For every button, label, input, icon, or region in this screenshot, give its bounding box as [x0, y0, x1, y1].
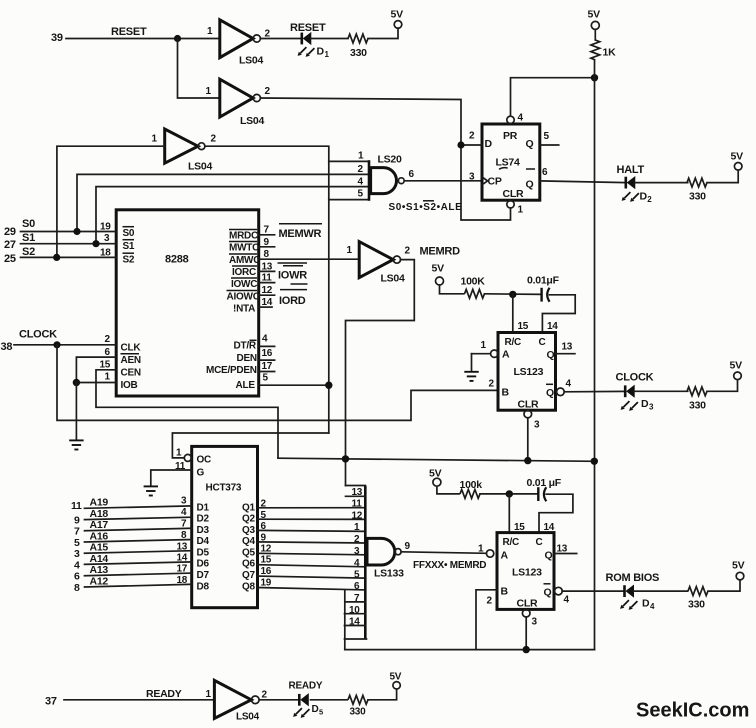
- pin name AIOWC inside: [227, 291, 260, 303]
- svg-text:S2: S2: [123, 255, 135, 266]
- LS74 inside labels: [482, 130, 535, 200]
- pin name S1bar inside: [123, 240, 135, 252]
- svg-text:6: 6: [354, 581, 360, 592]
- ladder cell 12 label: [352, 510, 363, 521]
- svg-text:14: 14: [349, 617, 360, 628]
- wire inverter1 out to LED D1: [261, 38, 302, 40]
- resistor 330 (D1): [348, 34, 368, 59]
- pin 13 Q stub: [556, 342, 575, 354]
- svg-text:2: 2: [211, 134, 217, 145]
- pin 2 D input wire and junction dot: [457, 131, 482, 149]
- svg-text:12: 12: [262, 285, 273, 296]
- svg-text:MRDC: MRDC: [229, 231, 258, 242]
- wire resistor to 5V (CLOCK): [707, 380, 738, 392]
- svg-text:READY: READY: [146, 688, 182, 700]
- latch U5 HCT373 box: [192, 446, 258, 607]
- svg-text:7: 7: [264, 225, 270, 236]
- pin 13 IORC stub: [259, 262, 275, 273]
- svg-text:C: C: [539, 337, 546, 348]
- svg-text:5V: 5V: [432, 263, 445, 275]
- svg-text:LS74: LS74: [496, 157, 521, 169]
- svg-text:MEMRD: MEMRD: [420, 246, 461, 258]
- gate LS133 13-input NAND body: [367, 538, 411, 579]
- svg-text:LS123: LS123: [512, 567, 542, 579]
- svg-text:A17: A17: [90, 519, 109, 531]
- wire CEN pin routing down and right: [96, 370, 278, 458]
- svg-text:17: 17: [262, 361, 273, 372]
- wire R/C junction down to pin 15: [512, 294, 514, 332]
- svg-text:RESET: RESET: [290, 22, 326, 34]
- svg-text:9: 9: [405, 541, 411, 552]
- pin 13 Q stub #2: [554, 544, 577, 555]
- power 5V terminal (100K #1): [432, 263, 445, 286]
- svg-text:1: 1: [206, 689, 212, 700]
- svg-text:5: 5: [358, 189, 364, 200]
- wire cap to C pin via right loop: [542, 295, 575, 333]
- svg-text:14: 14: [262, 297, 273, 308]
- diode D5 LED READY: [293, 694, 323, 718]
- svg-text:C: C: [536, 537, 543, 548]
- svg-text:Q6: Q6: [242, 559, 256, 570]
- svg-text:5: 5: [544, 131, 550, 142]
- svg-text:1: 1: [354, 522, 360, 533]
- net label ROM BIOS: [606, 572, 660, 584]
- net label CLOCK: [19, 329, 57, 341]
- svg-text:1: 1: [206, 86, 212, 97]
- op-amp inverter LS04 #3: [152, 129, 217, 173]
- diode D1 LED: [298, 33, 330, 59]
- svg-text:LS04: LS04: [240, 115, 265, 127]
- ground (8288 AEN/IOB): [69, 440, 83, 449]
- pin name S0bar inside: [123, 227, 135, 239]
- one-shot U6 LS123 box: [497, 533, 554, 610]
- svg-text:0.01 μF: 0.01 μF: [527, 477, 562, 489]
- junction dot PR/1K: [591, 74, 598, 81]
- svg-text:16: 16: [261, 566, 272, 577]
- wire resistor to 5V (ROM BIOS): [708, 580, 740, 591]
- svg-text:B: B: [501, 586, 509, 598]
- ladder left border and riser to rail: [344, 590, 346, 650]
- svg-text:CLK: CLK: [121, 343, 142, 354]
- svg-text:13: 13: [557, 544, 568, 555]
- svg-text:IOWR: IOWR: [278, 270, 307, 282]
- svg-text:11: 11: [71, 500, 82, 512]
- svg-text:A: A: [502, 349, 510, 361]
- svg-text:A13: A13: [90, 564, 109, 576]
- pin 3 CLR bubble #2 and wire down: [522, 609, 537, 649]
- ladder cell 7: [345, 593, 365, 604]
- wire 100K to junction and cap: [485, 293, 542, 296]
- ladder cell 3 label: [354, 546, 360, 557]
- svg-text:3: 3: [534, 420, 540, 431]
- svg-text:FFXXX• MEMRD: FFXXX• MEMRD: [413, 560, 486, 571]
- net label S0.S1.S2.ALE: [389, 201, 463, 213]
- svg-text:3: 3: [532, 617, 538, 628]
- pin 4 PR bubble and wire to 1K line: [507, 78, 595, 124]
- ladder cell 4 label: [354, 558, 360, 569]
- wire LS133 out to LS123#2 A: [401, 552, 486, 554]
- svg-text:14: 14: [547, 321, 558, 332]
- svg-text:2: 2: [354, 534, 360, 545]
- resistor 100k #2: [460, 479, 483, 498]
- net label MEMRD: [420, 246, 461, 258]
- pin 1 A input bubble and ground: [472, 340, 498, 371]
- diode D4 LED ROM BIOS: [620, 585, 655, 611]
- LS123 #2 inside labels: [501, 537, 553, 610]
- ladder top rung: [346, 485, 366, 487]
- svg-text:3: 3: [181, 496, 187, 507]
- svg-text:Q7: Q7: [242, 570, 256, 581]
- ladder cell 5 label: [354, 569, 360, 580]
- svg-text:A: A: [501, 550, 509, 562]
- svg-text:11: 11: [175, 461, 186, 472]
- svg-text:6: 6: [105, 347, 111, 358]
- wire OC riser to ALE vertical: [172, 433, 328, 458]
- svg-text:R/C: R/C: [505, 337, 522, 348]
- pin 15 label: [100, 360, 111, 371]
- svg-text:19: 19: [100, 222, 111, 233]
- svg-text:330: 330: [350, 707, 367, 718]
- pin 3 label: [104, 233, 110, 244]
- net label IOWR: [278, 263, 308, 282]
- svg-text:PR: PR: [503, 130, 518, 142]
- svg-text:RESET: RESET: [111, 26, 147, 38]
- svg-text:D: D: [640, 191, 648, 203]
- junction dot CLR #1: [524, 457, 531, 464]
- pin name CEN inside: [121, 368, 141, 379]
- svg-text:CLR: CLR: [518, 399, 539, 411]
- node 27 input: [4, 239, 16, 251]
- capacitor C1 0.01uF: [527, 275, 560, 302]
- svg-text:18: 18: [100, 248, 111, 259]
- ground (HCT373 G): [144, 486, 158, 495]
- pin 15 label: [518, 321, 529, 332]
- svg-text:MEMWR: MEMWR: [279, 228, 322, 240]
- svg-text:5: 5: [261, 510, 267, 521]
- svg-text:1: 1: [176, 448, 182, 459]
- svg-text:G: G: [197, 468, 205, 479]
- svg-text:LS04: LS04: [381, 273, 406, 285]
- wire 5V to 100K: [440, 285, 464, 294]
- svg-text:D: D: [312, 704, 319, 715]
- svg-text:D2: D2: [197, 514, 210, 525]
- power 5V terminal (100k #2): [429, 468, 442, 487]
- power 5V terminal (CLOCK): [730, 360, 743, 380]
- pin 1 A input bubble: [478, 544, 494, 558]
- svg-text:1K: 1K: [603, 47, 617, 59]
- svg-text:R/C: R/C: [503, 537, 520, 548]
- pin labels LS20 inputs 1,2,4,5: [358, 151, 365, 200]
- svg-text:LS133: LS133: [374, 568, 404, 580]
- wire Q1 / pin 2: [242, 499, 365, 514]
- node 7 / A17 / D3: [74, 519, 209, 538]
- svg-text:15: 15: [518, 321, 529, 332]
- svg-text:AMWC: AMWC: [229, 255, 260, 266]
- svg-text:AIOWC: AIOWC: [227, 292, 260, 303]
- svg-text:ALE: ALE: [236, 380, 256, 391]
- svg-text:S2: S2: [22, 246, 35, 258]
- wire S2 riser to inverter3 input: [57, 146, 165, 257]
- svg-text:6: 6: [542, 167, 548, 178]
- ladder cell 11 label: [352, 499, 363, 510]
- pin name ALE inside: [236, 380, 256, 391]
- svg-text:2: 2: [487, 596, 493, 607]
- node 8 / A12 / D8: [74, 575, 209, 594]
- ladder bottom rung: [345, 638, 367, 640]
- junction dot CLR #2 at rail: [523, 646, 530, 653]
- svg-text:MWTC: MWTC: [229, 243, 259, 254]
- svg-text:DT/R: DT/R: [234, 341, 257, 352]
- svg-text:LS04: LS04: [239, 55, 264, 67]
- wire LS20 input1 rung: [329, 160, 369, 162]
- flip-flop U2 LS74 box: [482, 124, 540, 200]
- gate LS20 4-input NAND body: [371, 154, 415, 194]
- svg-text:2: 2: [469, 131, 475, 142]
- svg-text:IOB: IOB: [121, 380, 138, 391]
- wire IOB junction down to ground: [75, 383, 77, 441]
- svg-text:LS20: LS20: [378, 154, 403, 166]
- pin 7 MRDC stub: [259, 225, 275, 236]
- wire D2 to resistor: [635, 182, 688, 184]
- svg-text:9: 9: [261, 533, 267, 544]
- junction dot S0 riser: [73, 228, 80, 235]
- svg-text:1: 1: [152, 134, 158, 145]
- svg-text:D7: D7: [197, 570, 210, 581]
- svg-text:5V: 5V: [732, 560, 745, 572]
- svg-text:3: 3: [354, 546, 360, 557]
- svg-text:1: 1: [105, 372, 111, 383]
- svg-text:S0: S0: [22, 218, 35, 230]
- svg-text:OC: OC: [197, 455, 212, 466]
- svg-text:14: 14: [177, 553, 188, 564]
- ladder cell 14: [345, 617, 366, 628]
- wire D3 to resistor: [634, 390, 687, 392]
- net label S2: [22, 246, 35, 258]
- svg-text:A15: A15: [90, 542, 109, 554]
- svg-text:CLR: CLR: [503, 188, 524, 200]
- pin name AMWC inside: [229, 254, 260, 266]
- svg-text:13: 13: [352, 487, 363, 498]
- wire LS20 output to LS74 CP: [404, 180, 482, 182]
- svg-text:25: 25: [4, 253, 16, 265]
- wire Q5 / pin 12: [242, 544, 365, 559]
- node 4 / A14 / D6: [74, 553, 209, 572]
- svg-text:Q: Q: [547, 349, 555, 361]
- pin 18 label: [100, 248, 111, 259]
- wire Q6 / pin 15: [242, 555, 365, 570]
- svg-text:D6: D6: [197, 559, 210, 570]
- capacitor C2 0.01uF: [527, 477, 562, 501]
- power 5V terminal (1K): [588, 9, 601, 30]
- wire AEN pin to ground riser: [76, 357, 116, 382]
- svg-text:DEN: DEN: [237, 353, 257, 364]
- junction dot R/C #1: [509, 291, 516, 298]
- svg-text:17: 17: [177, 564, 188, 575]
- diode D3 LED CLOCK: [621, 385, 654, 411]
- resistor 330 (ROM BIOS): [688, 587, 708, 611]
- svg-text:Q: Q: [544, 587, 552, 599]
- svg-text:18: 18: [177, 575, 188, 586]
- svg-text:Q8: Q8: [242, 582, 256, 593]
- power 5V terminal (READY): [390, 672, 402, 690]
- op-amp inverter LS04 #4 MEMRD: [347, 242, 411, 285]
- op-amp inverter LS04 #5 READY: [206, 680, 268, 722]
- net label RESET: [111, 26, 147, 38]
- svg-text:2: 2: [489, 379, 495, 390]
- wire CLOCK input to CLK pin: [14, 344, 116, 346]
- resistor 330 (READY): [348, 695, 368, 717]
- node 6 / A13 / D7: [74, 564, 209, 583]
- pin 15 label: [514, 522, 525, 533]
- pin 19 label: [100, 222, 111, 233]
- node 37 input: [45, 696, 57, 708]
- svg-text:D3: D3: [197, 525, 210, 536]
- node 9 / A18 / D2: [74, 507, 209, 527]
- wire CEN line horizontal to 1K rail: [278, 458, 594, 461]
- svg-text:D: D: [485, 138, 493, 150]
- pin 5 ALE wire to vertical: [259, 373, 329, 386]
- pin 1 label: [105, 372, 111, 383]
- svg-text:!NTA: !NTA: [233, 304, 255, 315]
- svg-text:2: 2: [265, 86, 271, 97]
- pin 4 DT/R stub: [259, 334, 275, 347]
- svg-text:1: 1: [481, 340, 487, 351]
- wire resistor to 5V (READY): [368, 689, 397, 700]
- svg-text:D: D: [642, 598, 650, 610]
- svg-text:13: 13: [262, 262, 273, 273]
- svg-text:15: 15: [261, 555, 272, 566]
- wire resistor to 5V (HALT): [707, 170, 738, 182]
- svg-text:D1: D1: [197, 503, 210, 514]
- chip name 8288: [165, 254, 189, 266]
- pin 3 CP label: [469, 172, 475, 183]
- resistor 330 (HALT): [687, 178, 707, 202]
- svg-text:LS04: LS04: [236, 712, 260, 723]
- one-shot U4 LS123 box: [498, 333, 556, 411]
- svg-text:5: 5: [354, 569, 360, 580]
- pin name MCE/PDEN inside: [206, 365, 257, 376]
- svg-text:4: 4: [566, 379, 572, 390]
- svg-text:5V: 5V: [730, 360, 743, 372]
- pin name S2bar inside: [123, 253, 135, 265]
- junction dot reset split: [174, 35, 181, 42]
- svg-text:5: 5: [319, 708, 323, 717]
- svg-text:13: 13: [177, 542, 188, 553]
- pin 6 Qbar wire to HALT LED: [540, 167, 626, 183]
- node 11 / A19 / D1: [71, 496, 209, 514]
- power 5V terminal (top left): [391, 9, 404, 29]
- junction dot CEN line at 1K rail: [591, 458, 598, 465]
- ladder cell 2 label: [354, 534, 360, 545]
- wire LS20 input2 from S0 riser: [77, 174, 369, 231]
- power 5V terminal (HALT): [731, 151, 744, 171]
- svg-text:CLOCK: CLOCK: [616, 372, 654, 384]
- svg-text:LS123: LS123: [514, 366, 544, 378]
- pin 14 label: [544, 522, 555, 533]
- svg-text:37: 37: [45, 696, 57, 708]
- svg-text:330: 330: [689, 400, 706, 412]
- pin name IOB inside: [121, 380, 138, 391]
- wire Q4 / pin 9: [242, 533, 365, 548]
- pin 17 MCE/PDEN stub: [259, 361, 275, 372]
- wire Q8 / pin 19: [242, 578, 365, 593]
- node 29 input: [4, 226, 16, 238]
- svg-text:Q1: Q1: [242, 503, 256, 514]
- svg-text:4: 4: [181, 507, 187, 518]
- svg-text:330: 330: [689, 191, 706, 203]
- svg-text:19: 19: [261, 578, 272, 589]
- resistor 1K vertical: [591, 40, 616, 60]
- svg-text:2: 2: [261, 499, 267, 510]
- svg-text:5V: 5V: [391, 9, 404, 21]
- net label S1: [22, 232, 35, 244]
- pin 3 CLR bubble and wire down: [524, 410, 540, 460]
- svg-text:6: 6: [74, 571, 80, 583]
- op-amp inverter LS04 #2: [206, 79, 271, 127]
- svg-text:38: 38: [1, 341, 13, 353]
- pin 1 OC bubble and label: [176, 448, 211, 466]
- wire 5V to 100k: [437, 486, 459, 494]
- chip name HCT373: [206, 483, 242, 494]
- wire IOB pin to junction: [76, 382, 116, 384]
- svg-text:S0•S1•S2•ALE: S0•S1•S2•ALE: [389, 202, 463, 213]
- op-amp U1a inverter LS04 #1: [207, 20, 271, 67]
- net label HALT: [617, 164, 645, 176]
- node 39 input label: [51, 32, 63, 44]
- net label MEMWR: [279, 224, 323, 240]
- wire Q7 / pin 16: [242, 566, 365, 581]
- pin name AEN inside: [121, 354, 141, 366]
- svg-text:HCT373: HCT373: [206, 483, 242, 494]
- svg-text:LS04: LS04: [188, 161, 213, 173]
- net label RESET (LED): [290, 22, 326, 34]
- svg-text:D4: D4: [197, 536, 210, 547]
- LS123 #1 inside labels: [502, 337, 555, 411]
- pin name DT/R inside: [234, 340, 257, 351]
- net label FFXXX.MEMRD: [413, 560, 486, 571]
- wire S0 input: [21, 231, 117, 233]
- svg-text:4: 4: [358, 177, 364, 188]
- svg-text:8: 8: [181, 530, 187, 541]
- node 25 input: [4, 253, 16, 265]
- svg-text:100k: 100k: [460, 479, 483, 491]
- pin 11 IOWC stub: [259, 273, 275, 284]
- pin 2 B label: [489, 379, 495, 390]
- wire cap #2 to C pin via right loop: [539, 494, 573, 532]
- pin 2 label: [105, 334, 111, 345]
- svg-text:29: 29: [4, 226, 16, 238]
- svg-text:3: 3: [104, 233, 110, 244]
- svg-text:330: 330: [688, 599, 705, 611]
- wire R/C #2 junction down to pin 15: [508, 494, 510, 533]
- svg-text:6: 6: [261, 521, 267, 532]
- svg-text:9: 9: [264, 237, 270, 248]
- net label READY: [146, 688, 182, 700]
- svg-text:8288: 8288: [165, 254, 189, 266]
- svg-text:D5: D5: [197, 548, 210, 559]
- svg-text:S1: S1: [22, 232, 35, 244]
- svg-text:A19: A19: [90, 497, 109, 509]
- wire Q3 / pin 6: [242, 521, 365, 536]
- ladder cell 13: [346, 487, 366, 498]
- svg-text:S0: S0: [123, 228, 135, 239]
- pin name INTA inside: [233, 304, 255, 315]
- wire inverter5 out to LED D5: [259, 699, 297, 701]
- svg-text:7: 7: [354, 593, 360, 604]
- svg-text:HALT: HALT: [617, 164, 645, 176]
- svg-text:2: 2: [105, 334, 111, 345]
- svg-text:0.01μF: 0.01μF: [527, 275, 560, 287]
